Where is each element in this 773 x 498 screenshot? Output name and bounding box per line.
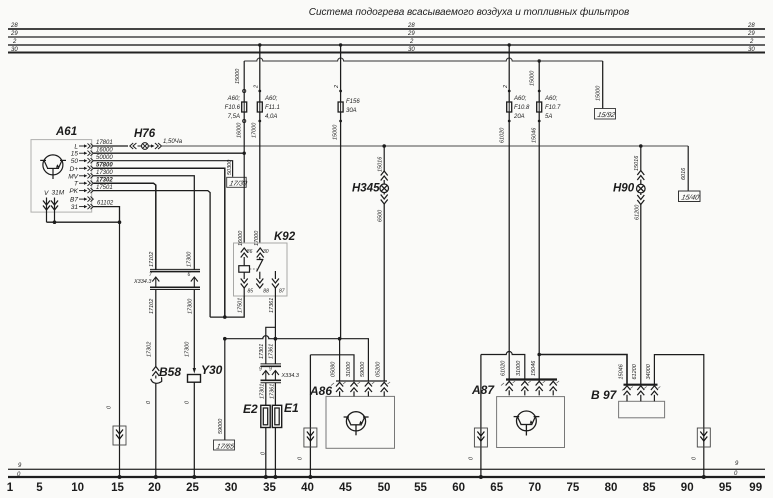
svg-text:16000: 16000 <box>236 122 242 138</box>
svg-text:17/65: 17/65 <box>216 442 236 450</box>
flame starter unit A86 <box>309 383 395 448</box>
K92 relay coil <box>239 266 250 273</box>
bus labels left <box>10 23 18 53</box>
svg-text:17501: 17501 <box>96 185 113 191</box>
fuse A60 F10.7 5A column <box>529 61 541 381</box>
svg-text:17801: 17801 <box>96 140 113 146</box>
svg-text:90: 90 <box>681 482 694 494</box>
svg-text:E2: E2 <box>243 402 258 416</box>
svg-text:61200: 61200 <box>632 363 638 379</box>
heater element E1 <box>272 405 281 427</box>
svg-text:9: 9 <box>269 367 272 373</box>
svg-text:85: 85 <box>248 289 254 295</box>
svg-text:2: 2 <box>749 39 754 45</box>
svg-text:Y30: Y30 <box>201 363 223 377</box>
svg-text:F10.7: F10.7 <box>545 105 561 111</box>
svg-text:7,5A: 7,5A <box>228 114 240 120</box>
relay K92 <box>234 231 296 296</box>
K92 pin 86 chevron <box>241 248 248 266</box>
svg-text:50000: 50000 <box>96 155 113 161</box>
wire 50000 from A61 pin50 to 17/39 <box>94 161 233 177</box>
fuse A60 F10.6 7.5A column <box>235 61 247 243</box>
svg-text:59000: 59000 <box>218 418 224 434</box>
svg-text:29: 29 <box>10 31 18 37</box>
A86 transistor symbol <box>344 412 369 436</box>
wire 16000 from A61 pin15 <box>94 152 245 154</box>
svg-text:25: 25 <box>186 482 199 494</box>
svg-text:5A: 5A <box>545 114 552 120</box>
svg-text:15016: 15016 <box>377 156 383 172</box>
E wires to ground <box>265 428 267 478</box>
svg-text:87: 87 <box>279 289 285 295</box>
svg-text:30: 30 <box>408 47 415 53</box>
svg-text:17300: 17300 <box>184 341 190 357</box>
svg-text:17300: 17300 <box>187 298 193 314</box>
svg-text:2: 2 <box>334 85 340 89</box>
svg-text:MV: MV <box>68 173 78 180</box>
ground point V inside A61 <box>43 190 50 222</box>
svg-text:28: 28 <box>10 23 18 29</box>
A87 connector strip <box>506 378 557 380</box>
K92 pin 88 chevron <box>256 272 263 288</box>
svg-text:F10.6: F10.6 <box>225 105 241 111</box>
svg-text:A61: A61 <box>55 126 77 138</box>
wire 59000 drop to 17/65 <box>224 339 226 440</box>
B97 connector strip <box>624 384 658 386</box>
wire 17501 from A61 pin PK to B58 column <box>94 191 211 318</box>
svg-text:D+: D+ <box>70 166 79 173</box>
reference box 15/40 <box>679 191 701 202</box>
A86 pin 1 <box>336 339 343 397</box>
svg-text:A60;: A60; <box>227 96 241 102</box>
svg-text:80: 80 <box>605 482 618 494</box>
svg-text:4,0A: 4,0A <box>265 114 277 120</box>
svg-text:X334.3: X334.3 <box>133 279 152 285</box>
wire 61102 from A61 pin 31 <box>94 207 120 223</box>
svg-text:59000: 59000 <box>360 361 366 377</box>
wire 17300 from A61 pin MV to Y30 column <box>94 176 195 270</box>
connector symbol on track15 ground drop <box>113 426 126 445</box>
connector on B97 ground drop <box>697 428 710 447</box>
reference box 17/65 <box>214 440 236 450</box>
svg-text:17361: 17361 <box>269 384 275 399</box>
svg-text:20: 20 <box>148 482 161 494</box>
svg-text:31000: 31000 <box>346 361 352 377</box>
svg-text:A60;: A60; <box>544 96 558 102</box>
svg-text:05200: 05200 <box>375 361 381 377</box>
svg-text:A87: A87 <box>471 383 495 397</box>
svg-text:17000: 17000 <box>254 230 260 246</box>
K92 pin 87 chevron <box>272 271 279 296</box>
wire F10.7 output to B97 <box>539 355 627 385</box>
ground bus upper line 9 <box>8 468 765 470</box>
junction D+ column on pin85 wire <box>223 315 227 319</box>
solenoid valve Y30 <box>188 368 201 382</box>
fuel filter heater B97 <box>591 388 665 418</box>
svg-text:H90: H90 <box>613 183 635 195</box>
svg-text:75: 75 <box>567 482 580 494</box>
reference box 15/92 <box>595 109 617 120</box>
svg-text:V: V <box>44 190 49 197</box>
svg-text:29: 29 <box>407 31 415 37</box>
svg-text:Система подогрева всасываемого: Система подогрева всасываемого воздуха и… <box>309 6 630 18</box>
K92 pin 85 chevron <box>241 272 248 296</box>
wire 17302 from A61 pin T <box>94 183 156 270</box>
svg-text:16000: 16000 <box>238 230 244 246</box>
svg-text:95: 95 <box>719 482 732 494</box>
A87 pin 4 <box>550 381 557 395</box>
svg-text:7: 7 <box>149 272 152 278</box>
svg-text:A60;: A60; <box>513 96 527 102</box>
svg-text:17/39: 17/39 <box>229 179 249 187</box>
svg-text:45: 45 <box>339 482 352 494</box>
thermo switch B58 <box>151 367 162 384</box>
svg-text:31M: 31M <box>52 190 65 197</box>
transistor symbol inside A61 <box>40 155 66 179</box>
svg-text:F10.8: F10.8 <box>514 105 530 111</box>
svg-text:15000: 15000 <box>596 85 602 101</box>
svg-text:50300: 50300 <box>227 159 233 175</box>
svg-text:17301: 17301 <box>259 344 265 359</box>
fuse A60 F11.1 40A column <box>251 43 262 243</box>
svg-text:K92: K92 <box>274 231 296 243</box>
ground point 31M inside A61 <box>51 190 65 223</box>
svg-text:50: 50 <box>71 158 79 165</box>
A86 ground drop with connector <box>309 355 311 477</box>
svg-text:30: 30 <box>748 47 755 53</box>
ruler numbers <box>7 482 762 494</box>
svg-text:17102: 17102 <box>149 252 155 267</box>
svg-text:15000: 15000 <box>235 68 241 84</box>
svg-text:B7: B7 <box>70 197 78 204</box>
K92 pin85 wire down <box>210 296 244 317</box>
A87 transistor symbol <box>514 411 540 436</box>
svg-text:61020: 61020 <box>499 127 505 143</box>
svg-text:15: 15 <box>111 482 124 494</box>
svg-text:9: 9 <box>259 367 262 373</box>
svg-text:6: 6 <box>188 272 191 278</box>
svg-text:29: 29 <box>747 31 755 37</box>
svg-text:15046: 15046 <box>618 363 624 379</box>
svg-text:30A: 30A <box>346 108 357 114</box>
Y30 wire to ground <box>193 382 195 477</box>
junction dots on ground collector <box>53 220 57 224</box>
svg-text:1,50Ча: 1,50Ча <box>163 139 183 145</box>
svg-text:50: 50 <box>378 482 391 494</box>
svg-text:17301: 17301 <box>259 384 265 399</box>
wire L 17801 from A61 to H76 <box>94 145 129 147</box>
junction 16000 at fuse column <box>243 152 246 155</box>
svg-text:B 97: B 97 <box>591 388 618 402</box>
ground bus labels right <box>734 461 739 477</box>
indicator lamp H90 <box>637 146 646 385</box>
svg-text:99: 99 <box>749 482 762 494</box>
wire drop to reference 15/40 <box>687 146 689 191</box>
B58 wire to ground <box>155 384 157 478</box>
A87 ground drop with connector <box>480 355 482 478</box>
bus line 29 <box>8 36 765 38</box>
ground bus lower line 0 <box>8 476 765 478</box>
svg-text:PK: PK <box>69 188 78 195</box>
bus line 30 <box>8 51 765 53</box>
fuse F156 30A column <box>333 43 344 338</box>
fuse A60 F10.8 20A column <box>499 43 511 381</box>
svg-text:17300: 17300 <box>186 251 192 267</box>
svg-text:61102: 61102 <box>97 201 114 207</box>
svg-text:B58: B58 <box>159 365 181 379</box>
svg-text:17102: 17102 <box>149 299 155 314</box>
svg-text:H345: H345 <box>352 183 380 195</box>
svg-text:28: 28 <box>407 23 415 29</box>
svg-text:17000: 17000 <box>251 122 257 138</box>
connector X334.3 between B58 and Y30 columns <box>150 269 200 289</box>
svg-text:15046: 15046 <box>531 127 537 143</box>
svg-text:5: 5 <box>36 482 43 494</box>
svg-text:15000: 15000 <box>333 124 339 140</box>
svg-text:17361: 17361 <box>268 344 274 359</box>
E2 branch split <box>266 327 276 364</box>
svg-text:2: 2 <box>409 39 414 45</box>
svg-text:A86: A86 <box>309 384 332 398</box>
A61 pin names <box>68 143 79 211</box>
svg-text:17501: 17501 <box>237 298 243 313</box>
svg-text:86: 86 <box>247 249 253 255</box>
K92 pin87 wire down <box>274 296 276 364</box>
svg-text:28: 28 <box>747 23 755 29</box>
control unit A61 <box>31 126 92 212</box>
ground drop wire track15 <box>119 222 121 477</box>
svg-text:40: 40 <box>301 482 314 494</box>
svg-text:15/40: 15/40 <box>681 194 701 202</box>
connector X334.3 between E2 and E1 columns <box>261 364 282 383</box>
ground collector wire under A61 <box>47 221 120 223</box>
svg-text:2: 2 <box>12 39 17 45</box>
svg-text:E1: E1 <box>284 401 299 415</box>
A87 pin 2 ground wire <box>481 352 529 396</box>
A86 connector strip <box>336 380 387 382</box>
Y30 column lower <box>193 290 195 369</box>
E columns to elements <box>265 383 267 406</box>
B97 pin3 ground wire <box>654 355 703 477</box>
B97 pin 3 to ground <box>651 386 658 402</box>
B58 column lower <box>155 290 157 367</box>
bus line 2 <box>8 44 765 46</box>
A87 pin 3 from F10.7 <box>536 381 543 395</box>
A86 pin 3 <box>365 382 372 396</box>
B97 pin 2 from H90 <box>637 386 644 402</box>
svg-text:6500: 6500 <box>377 209 383 222</box>
svg-text:L: L <box>74 143 78 150</box>
svg-text:55: 55 <box>414 482 427 494</box>
svg-text:05080: 05080 <box>331 361 337 377</box>
svg-text:17361: 17361 <box>269 298 275 313</box>
svg-text:31: 31 <box>71 204 79 211</box>
svg-text:17300: 17300 <box>96 170 113 176</box>
bus labels middle <box>407 23 415 53</box>
svg-text:F11.1: F11.1 <box>265 105 280 111</box>
ground bus junction dots <box>118 475 122 479</box>
K92 pin 30 chevron <box>257 248 264 260</box>
svg-text:17302: 17302 <box>96 177 113 183</box>
svg-text:15: 15 <box>71 151 79 158</box>
svg-text:34000: 34000 <box>646 363 652 379</box>
svg-text:85: 85 <box>643 482 656 494</box>
svg-text:1: 1 <box>7 482 14 494</box>
svg-text:15046: 15046 <box>531 360 537 376</box>
svg-text:61200: 61200 <box>634 204 640 220</box>
svg-text:60: 60 <box>452 482 465 494</box>
B97 pin 1 <box>624 386 631 402</box>
indicator lamp H345 <box>380 146 389 381</box>
wire 15000 feed horizontal from 15/92 <box>244 58 603 61</box>
A87 pin 1 from F10.8 <box>506 381 513 395</box>
A86 pin 2 ground wire <box>310 355 357 397</box>
svg-text:65: 65 <box>490 482 503 494</box>
wire to reference 15/92 <box>602 61 604 109</box>
wire 17801 continuation to right <box>162 145 688 147</box>
A86 pin 4 from H345 <box>381 382 388 396</box>
svg-text:20A: 20A <box>513 114 525 120</box>
svg-text:57800: 57800 <box>96 163 113 169</box>
bus line 28 <box>8 28 765 30</box>
wire 57800 from A61 pin D+ <box>94 168 225 317</box>
svg-text:6016: 6016 <box>681 167 687 180</box>
svg-text:15000: 15000 <box>529 70 535 86</box>
svg-text:A60;: A60; <box>264 96 278 102</box>
svg-text:2: 2 <box>253 85 259 89</box>
svg-text:H76: H76 <box>134 128 156 140</box>
svg-text:35: 35 <box>263 482 276 494</box>
wire 59000 horizontal to A86 <box>225 336 369 381</box>
svg-text:2: 2 <box>503 85 509 89</box>
svg-text:10: 10 <box>71 482 84 494</box>
svg-text:30: 30 <box>263 249 269 255</box>
ground bus labels left <box>17 463 22 478</box>
svg-text:17302: 17302 <box>146 342 152 357</box>
heater element E2 <box>261 405 270 427</box>
svg-text:88: 88 <box>263 289 269 295</box>
svg-text:30: 30 <box>11 47 18 53</box>
svg-text:15016: 15016 <box>634 155 640 171</box>
svg-text:F156: F156 <box>346 99 360 105</box>
flame starter unit A87 <box>471 383 565 448</box>
junction F10.7 on 15000 feed <box>538 59 541 62</box>
A61 pin arrows <box>79 143 93 209</box>
indicator lamp H76 inline <box>130 128 162 149</box>
reference box 17/39 <box>227 177 248 187</box>
svg-text:70: 70 <box>528 482 541 494</box>
svg-text:31000: 31000 <box>516 360 522 376</box>
K92 contact switch <box>257 260 264 272</box>
bus labels right <box>747 23 755 53</box>
svg-text:30: 30 <box>225 482 238 494</box>
svg-text:16000: 16000 <box>96 147 113 153</box>
svg-text:15/92: 15/92 <box>597 111 617 119</box>
svg-text:61020: 61020 <box>501 360 507 376</box>
svg-text:X334.3: X334.3 <box>281 373 300 379</box>
